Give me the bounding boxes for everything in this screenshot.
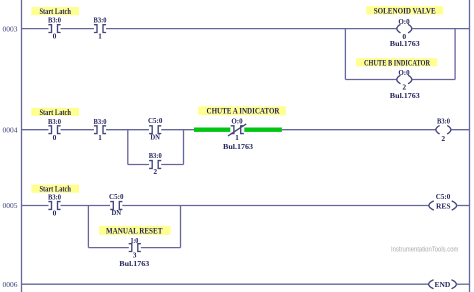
coil OTE O:0/0 SOLENOID VALVE [390, 17, 420, 48]
contact XIC B3:0/1 (rung3) [94, 16, 107, 41]
svg-text:0: 0 [53, 209, 57, 218]
svg-text:B3:0: B3:0 [437, 117, 450, 126]
svg-text:0: 0 [53, 32, 57, 41]
wire rung4 branch left vertical [127, 130, 129, 165]
wire rung3: coil O:0/0 to right rail [412, 28, 470, 30]
svg-text:B3:0: B3:0 [94, 117, 107, 126]
wire rung4: contact B3:0/0 to contact B3:0/1 [61, 129, 95, 131]
label CHUTE B INDICATOR [356, 57, 437, 67]
contact XIC B3:0/2 (rung4 branch) [149, 151, 162, 176]
svg-text:CHUTE A INDICATOR: CHUTE A INDICATOR [207, 106, 281, 116]
svg-text:1: 1 [98, 133, 102, 142]
wire rung6: left rail to END coil [22, 283, 429, 285]
contact XIC B3:0/0 (rung3) [48, 16, 61, 41]
wire rung3: contact B3:0/0 to contact B3:0/1 [61, 28, 95, 30]
contact XIC I:0/3 MANUAL RESET (rung5 branch) [119, 236, 149, 268]
svg-text:SOLENOID VALVE: SOLENOID VALVE [374, 5, 436, 15]
svg-text:0004: 0004 [3, 125, 18, 134]
coil OTE O:0/2 CHUTE B INDICATOR [390, 68, 420, 100]
contact XIC B3:0/1 (rung4) [94, 117, 107, 142]
svg-text:B3:0: B3:0 [94, 16, 107, 25]
wire rung5: coil RES to right rail [457, 205, 470, 207]
svg-text:MANUAL RESET: MANUAL RESET [106, 226, 163, 236]
svg-text:2: 2 [441, 134, 445, 143]
svg-text:Start Latch: Start Latch [39, 6, 71, 16]
svg-text:END: END [434, 280, 450, 289]
svg-text:C5:0: C5:0 [148, 116, 163, 125]
svg-text:Bul.1763: Bul.1763 [390, 91, 420, 100]
svg-text:RES: RES [436, 201, 451, 210]
svg-text:B3:0: B3:0 [48, 117, 61, 126]
svg-text:Start Latch: Start Latch [39, 107, 71, 117]
svg-text:2: 2 [153, 167, 157, 176]
wire rung4 branch bottom left segment [128, 164, 149, 166]
wire rung4 branch bottom right segment [161, 164, 183, 166]
contact XIO O:0/1 CHUTE A INDICATOR [223, 117, 253, 151]
wire rung5: contact C5:0 to coil RES [122, 205, 429, 207]
contact XIC C5:0/DN (rung4) [148, 116, 163, 142]
wire rung3 branch bottom left segment [345, 79, 396, 81]
svg-text:0003: 0003 [3, 24, 18, 33]
wire rung5: left rail to contact B3:0/0 [22, 205, 49, 207]
svg-text:Bul.1763: Bul.1763 [223, 142, 253, 151]
wire rung4: contact B3:0/1 to branch [106, 129, 149, 131]
wire rung5: contact B3:0/0 to branch [61, 205, 111, 207]
contact XIC C5:0/DN (rung5) [109, 192, 124, 217]
wire rung6: END coil to right rail [456, 283, 469, 285]
svg-text:C5:0: C5:0 [436, 192, 451, 201]
svg-text:1: 1 [98, 32, 102, 41]
wire rung4: contact C5:0 to branch right [161, 129, 194, 131]
svg-text:1: 1 [235, 133, 239, 142]
wire rung4 energized green segment right [244, 128, 282, 132]
label Start Latch (rung5 contact1 description) [31, 184, 79, 194]
wire rung3: left rail to contact B3:0/0 [22, 28, 49, 30]
svg-text:C5:0: C5:0 [109, 192, 124, 201]
coil END (rung6) [429, 280, 457, 289]
wire rung5 branch bottom right segment [141, 247, 181, 249]
wire rung4: left rail to contact B3:0/0 [22, 129, 49, 131]
label Start Latch (rung3 contact1 description) [31, 6, 79, 16]
coil RES C5:0 (rung5 output) [429, 192, 457, 211]
label SOLENOID VALVE [366, 5, 443, 15]
wire rung5 branch right vertical [180, 206, 182, 248]
svg-text:0: 0 [53, 133, 57, 142]
wire rung5 branch bottom left segment [88, 247, 128, 249]
left power rail [21, 0, 23, 292]
wire rung3 branch right vertical [454, 29, 456, 80]
svg-text:CHUTE B INDICATOR: CHUTE B INDICATOR [364, 57, 431, 67]
svg-text:Bul.1763: Bul.1763 [390, 39, 420, 48]
wire rung4 branch right vertical [183, 130, 185, 165]
contact XIC B3:0/0 (rung5) [48, 193, 61, 218]
wire rung3: contact B3:0/1 to coil O:0/0 [106, 28, 397, 30]
svg-text:DN: DN [112, 208, 122, 217]
wire rung3 branch bottom right segment [412, 79, 455, 81]
contact XIC B3:0/0 (rung4) [48, 117, 61, 142]
svg-text:B3:0: B3:0 [48, 16, 61, 25]
wire rung5 branch left vertical [87, 206, 89, 248]
svg-text:B3:0: B3:0 [149, 151, 162, 160]
coil OTE B3:0/2 (rung4 output) [436, 117, 451, 144]
svg-text:InstrumentationTools.com: InstrumentationTools.com [391, 246, 459, 253]
wire rung4 energized green segment left [194, 128, 230, 132]
label MANUAL RESET [99, 226, 170, 236]
right power rail [469, 0, 471, 292]
svg-text:DN: DN [150, 133, 160, 142]
svg-text:B3:0: B3:0 [48, 193, 61, 202]
svg-text:3: 3 [133, 250, 137, 259]
svg-text:Bul.1763: Bul.1763 [119, 259, 149, 268]
wire rung3 branch left vertical [344, 29, 346, 80]
label CHUTE A INDICATOR [198, 106, 286, 116]
wire rung4: coil to right rail [451, 129, 469, 131]
wire rung4: green segment to coil B3:0/2 [282, 129, 436, 131]
label Start Latch (rung4 contact1 description) [31, 107, 79, 117]
svg-text:O:0: O:0 [231, 117, 243, 126]
svg-text:0006: 0006 [3, 280, 18, 289]
svg-text:0005: 0005 [3, 201, 18, 210]
